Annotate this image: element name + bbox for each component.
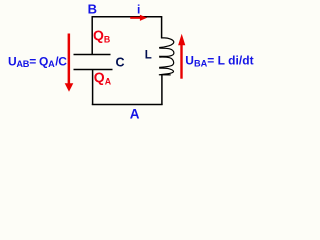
svg-text:L: L — [145, 49, 152, 61]
capacitor C bottom plate — [74, 69, 113, 71]
wire: bottom horizontal — [92, 104, 163, 106]
wire: left vertical lead from capacitor bottom plate to bottom wire — [92, 70, 94, 106]
wire: top horizontal B to top-right corner — [92, 16, 163, 18]
arrow: U_AB down arrow left of capacitor — [65, 34, 74, 92]
svg-text:B: B — [88, 1, 97, 16]
svg-text:i: i — [137, 2, 140, 16]
svg-text:QA: QA — [94, 69, 112, 87]
inductor L coil — [159, 38, 174, 75]
arrow: U_BA up arrow right of inductor — [178, 34, 185, 79]
svg-text:A: A — [130, 106, 140, 121]
arrow: current i on top wire — [130, 15, 147, 21]
capacitor C top plate — [74, 54, 111, 56]
wire: right vertical from top corner down to inductor — [161, 16, 163, 38]
svg-text:UBA= L di/dt: UBA= L di/dt — [185, 54, 253, 69]
wire: left vertical lead from B down to capacitor top plate — [91, 16, 93, 54]
wire: right vertical below inductor to bottom-right corner — [161, 75, 163, 105]
svg-text:QB: QB — [93, 27, 110, 45]
svg-text:C: C — [116, 55, 125, 69]
svg-text:UAB= QA/C: UAB= QA/C — [8, 54, 67, 69]
